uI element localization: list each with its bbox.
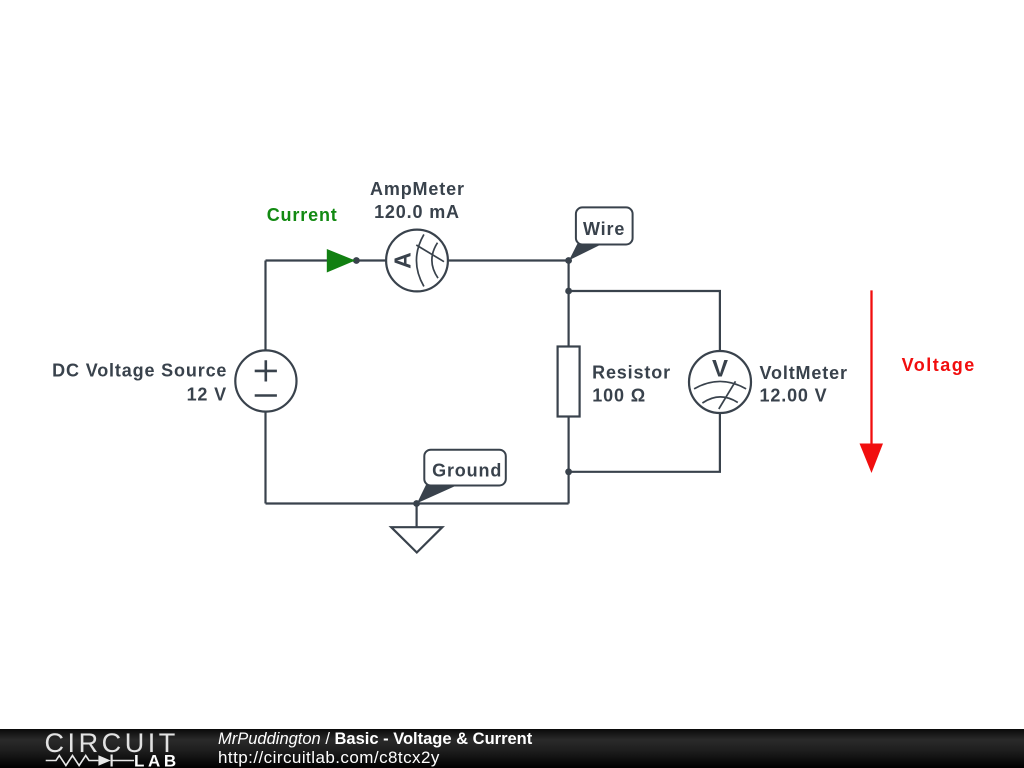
svg-text:120.0 mA: 120.0 mA xyxy=(374,202,460,222)
logo diode xyxy=(98,755,110,765)
logo wire xyxy=(46,756,134,766)
ground stub xyxy=(416,504,418,528)
svg-text:AmpMeter: AmpMeter xyxy=(370,179,465,199)
svg-text:Resistor: Resistor xyxy=(592,362,671,382)
svg-text:V: V xyxy=(712,355,728,382)
svg-text:12.00 V: 12.00 V xyxy=(760,386,828,406)
svg-text:12 V: 12 V xyxy=(187,384,227,404)
voltmeter meter arcs and needle xyxy=(694,381,746,409)
wire bottom horizontal xyxy=(266,502,569,504)
Ground label bubble xyxy=(417,484,457,504)
svg-text:Voltage: Voltage xyxy=(902,355,976,375)
svg-text:Wire: Wire xyxy=(583,219,625,239)
DC source minus sign xyxy=(255,394,277,397)
voltmeter VM1 circle xyxy=(689,351,751,413)
CircuitLab logo xyxy=(0,729,210,768)
wire left branch lower vertical xyxy=(264,412,266,504)
wire left branch vertical xyxy=(264,261,266,351)
footer title xyxy=(218,730,532,749)
current direction arrow (green) xyxy=(327,249,355,273)
ammeter meter arcs and needle xyxy=(416,234,444,286)
junction dot at current arrow xyxy=(353,257,360,264)
wire corner down to node xyxy=(567,261,569,292)
svg-text:100 Ω: 100 Ω xyxy=(592,385,646,405)
svg-text:Current: Current xyxy=(267,205,338,225)
wire node down to resistor xyxy=(567,291,569,347)
wire ammeter to corner xyxy=(448,259,569,261)
footer bar xyxy=(0,729,1024,768)
Wire label bubble xyxy=(569,243,602,261)
wire voltmeter bottom branch xyxy=(569,413,720,472)
wire resistor bottom down xyxy=(567,417,569,504)
junction node Wire corner xyxy=(565,257,572,264)
wire top horizontal to ammeter xyxy=(266,259,387,261)
junction node resistor bottom xyxy=(565,468,572,475)
ground symbol xyxy=(391,527,442,552)
junction node below corner xyxy=(565,288,572,295)
resistor R1 body xyxy=(558,347,580,417)
svg-text:DC Voltage Source: DC Voltage Source xyxy=(52,361,227,381)
svg-text:A: A xyxy=(390,252,416,269)
svg-text:Ground: Ground xyxy=(432,460,502,480)
DC source plus sign xyxy=(255,360,277,381)
DC voltage source V1 circle xyxy=(235,350,296,411)
svg-text:VoltMeter: VoltMeter xyxy=(760,363,848,383)
svg-text:LAB: LAB xyxy=(134,752,180,768)
ammeter AM1 circle xyxy=(386,230,448,292)
junction node ground xyxy=(413,500,420,507)
footer url xyxy=(218,748,440,768)
wire node to voltmeter top branch xyxy=(569,291,720,351)
voltage arrow head xyxy=(860,444,884,474)
voltage arrow (red) line xyxy=(870,290,872,445)
